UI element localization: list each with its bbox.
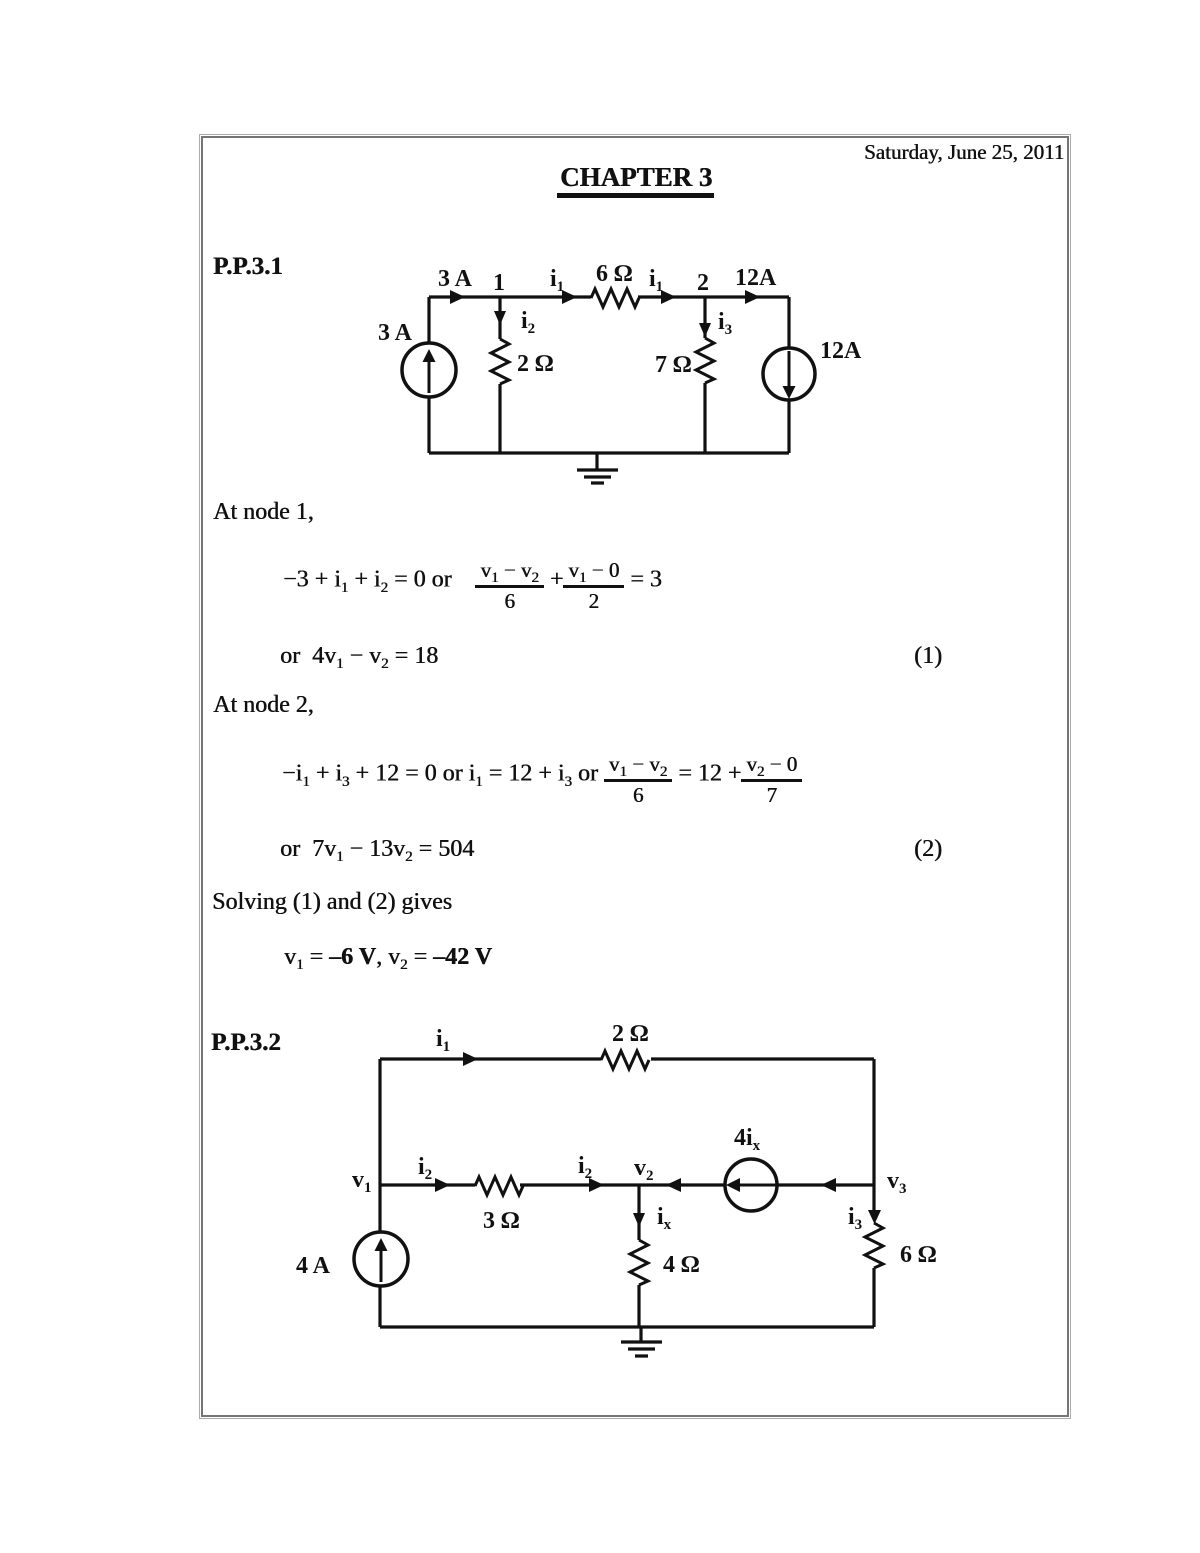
resistor 4ohm: [630, 1240, 648, 1285]
arrow 12A: [745, 290, 760, 304]
arrow i2 left: [435, 1178, 450, 1192]
svg-text:3 A: 3 A: [378, 320, 413, 346]
svg-text:6 Ω: 6 Ω: [596, 261, 632, 287]
resistor 6ohm right: [865, 1223, 883, 1268]
At node 2: [213, 693, 314, 717]
svg-text:v2: v2: [634, 1155, 654, 1184]
arrow from v3: [821, 1178, 836, 1192]
arrow i1 left: [562, 290, 577, 304]
wire left vertical: [378, 1059, 381, 1327]
svg-text:i1: i1: [436, 1026, 450, 1055]
svg-text:ix: ix: [657, 1204, 672, 1233]
wire node 1 branch: [498, 297, 501, 453]
wire right vertical: [787, 297, 790, 453]
wire left vertical: [427, 297, 430, 453]
svg-text:i1: i1: [550, 266, 564, 295]
resistor 2ohm: [491, 339, 509, 384]
or 4v1 - v2 = 18: [280, 644, 438, 668]
wire bottom: [429, 451, 789, 454]
current source I2 12A: [763, 348, 815, 400]
ground: [577, 453, 618, 483]
arrow i1 top: [463, 1052, 478, 1066]
wire v2 branch: [637, 1185, 640, 1327]
or 7v1 - 13v2 = 504: [280, 837, 474, 861]
svg-text:12A: 12A: [820, 338, 862, 364]
svg-text:i3: i3: [848, 1204, 862, 1233]
equation 2: [282, 754, 802, 806]
At node 1: [213, 500, 314, 524]
svg-text:v1: v1: [352, 1167, 372, 1196]
svg-text:i2: i2: [521, 308, 535, 337]
arrow i2: [494, 311, 506, 325]
arrow i2 right: [589, 1178, 604, 1192]
arrow i3: [868, 1210, 881, 1224]
date: [864, 142, 1064, 163]
current source I1 3A: [402, 343, 456, 397]
ground 2: [621, 1327, 662, 1356]
svg-text:i3: i3: [718, 309, 732, 338]
arrow i1 right: [661, 290, 676, 304]
P.P.3.2: [211, 1030, 281, 1055]
svg-text:i1: i1: [649, 266, 663, 295]
resistor 3ohm: [475, 1177, 523, 1195]
svg-text:2 Ω: 2 Ω: [517, 351, 553, 377]
circuit 1 svg: [360, 255, 880, 495]
answers: [284, 945, 492, 969]
P.P.3.1: [213, 254, 283, 279]
wire bottom: [380, 1325, 874, 1328]
Solving: [212, 890, 452, 914]
svg-text:i2: i2: [578, 1153, 592, 1182]
circuit 2 svg: [280, 1015, 940, 1375]
svg-text:2 Ω: 2 Ω: [612, 1021, 648, 1047]
resistor 7ohm: [696, 338, 714, 383]
wire middle v1-v2: [380, 1183, 725, 1186]
arrow ix: [633, 1213, 645, 1227]
wire node 2 branch: [703, 297, 706, 453]
svg-text:3 Ω: 3 Ω: [483, 1208, 519, 1234]
arrow 3A top: [450, 290, 465, 304]
svg-text:4ix: 4ix: [734, 1125, 761, 1154]
wire right vertical: [872, 1059, 875, 1327]
svg-text:12A: 12A: [735, 265, 777, 291]
wire middle v2-v3: [777, 1183, 874, 1186]
svg-text:v3: v3: [887, 1168, 907, 1197]
svg-text:2: 2: [697, 270, 709, 296]
arrow i3: [699, 323, 711, 337]
resistor 6ohm: [591, 289, 639, 307]
chapter heading: [557, 164, 714, 198]
equation 1: [283, 560, 662, 612]
svg-text:4 Ω: 4 Ω: [663, 1252, 699, 1278]
page frame: [201, 136, 1069, 1417]
svg-text:7 Ω: 7 Ω: [655, 352, 691, 378]
resistor 2ohm top: [601, 1051, 649, 1069]
svg-text:4 A: 4 A: [296, 1253, 331, 1279]
wire top: [429, 295, 789, 298]
svg-text:i2: i2: [418, 1154, 432, 1183]
arrow into v2: [666, 1178, 681, 1192]
current source 4A: [354, 1232, 408, 1286]
svg-text:3 A: 3 A: [438, 266, 473, 292]
wire top: [380, 1057, 874, 1060]
svg-text:1: 1: [493, 270, 505, 296]
svg-text:6 Ω: 6 Ω: [900, 1242, 936, 1268]
dependent source 4ix: [725, 1159, 777, 1211]
